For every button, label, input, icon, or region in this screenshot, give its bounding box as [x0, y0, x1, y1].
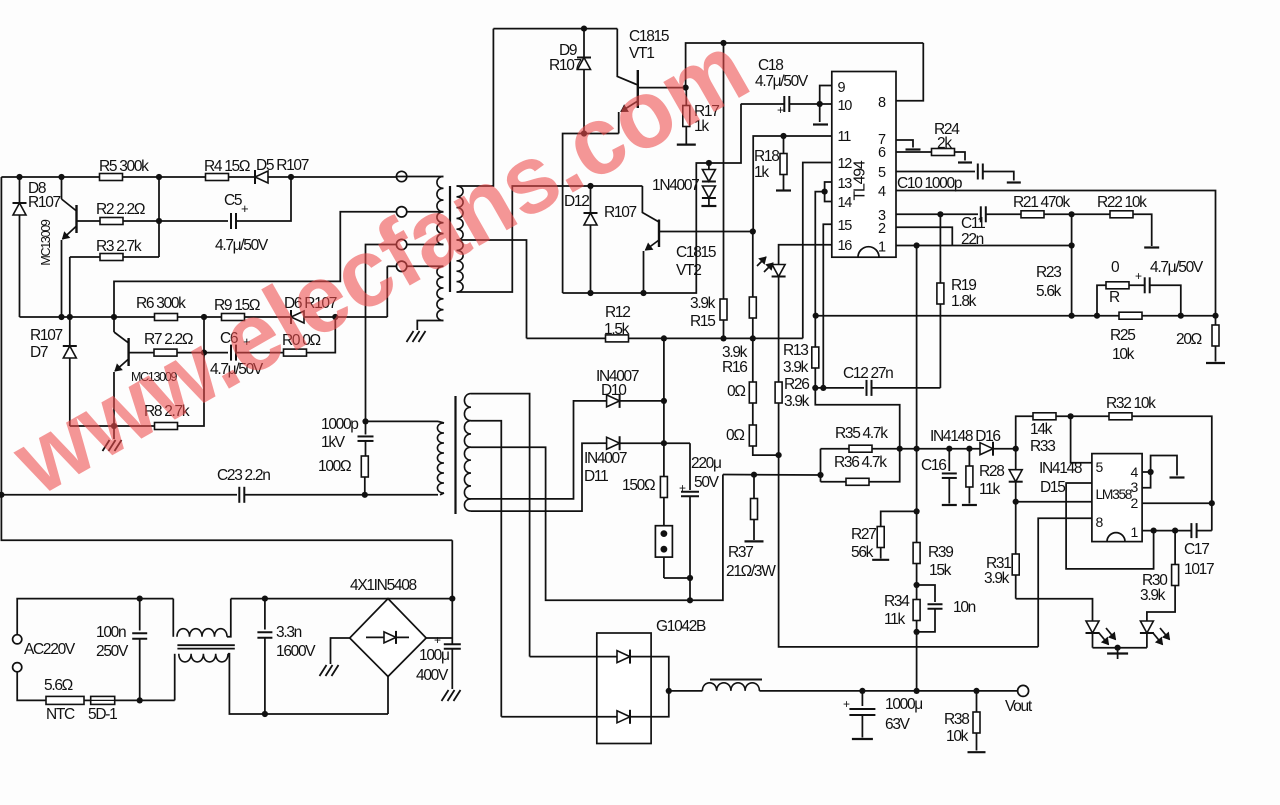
wire base to rail y=43 — [686, 43, 924, 88]
svg-text:R37: R37 — [728, 544, 753, 561]
transistor Q2 MC13009 — [113, 317, 115, 332]
svg-text:50V: 50V — [694, 474, 720, 491]
transformer T1 lower winding — [407, 265, 444, 267]
wire pin2 line — [1016, 501, 1092, 503]
svg-text:R35 4.7k: R35 4.7k — [835, 425, 888, 442]
diode D9 R107 — [583, 29, 585, 58]
node C18 right — [817, 101, 823, 107]
transformer T2 core — [454, 396, 456, 514]
wire LED common — [1093, 647, 1147, 649]
wire R16 lower leg — [752, 318, 754, 382]
svg-text:R: R — [1109, 289, 1120, 306]
svg-text:3.9k: 3.9k — [984, 570, 1010, 587]
svg-text:R107: R107 — [30, 327, 63, 344]
svg-text:TL494: TL494 — [852, 160, 869, 200]
ground Q2 emitter — [113, 426, 115, 439]
wire pin4 long rail — [896, 191, 1216, 316]
svg-text:R22 10k: R22 10k — [1097, 194, 1147, 211]
svg-text:15k: 15k — [929, 562, 952, 579]
svg-text:4.7μ/50V: 4.7μ/50V — [755, 73, 809, 90]
svg-text:R34: R34 — [884, 593, 910, 610]
svg-text:AC220V: AC220V — [24, 641, 76, 658]
svg-text:10k: 10k — [946, 728, 969, 745]
wire pin12 drop — [803, 163, 832, 339]
svg-text:R25: R25 — [1110, 327, 1135, 344]
svg-text:R32 10k: R32 10k — [1106, 395, 1156, 412]
svg-text:11k: 11k — [884, 611, 905, 628]
svg-text:VT2: VT2 — [676, 262, 701, 279]
node feedback divider top — [914, 242, 920, 248]
svg-text:150Ω: 150Ω — [622, 477, 655, 494]
node R5 right — [156, 174, 162, 180]
svg-text:1017: 1017 — [1184, 561, 1214, 578]
wire error amp line y=315.7 — [816, 315, 1216, 317]
svg-text:10n: 10n — [953, 599, 976, 616]
wire VT1 emitter line — [563, 134, 619, 294]
wire feed line y=475 — [723, 474, 821, 477]
svg-text:R28: R28 — [979, 463, 1004, 480]
svg-text:3.9k: 3.9k — [690, 295, 716, 312]
wire AC bottom — [17, 672, 46, 701]
wire opto chain down — [779, 455, 1039, 647]
svg-text:4.7μ/50V: 4.7μ/50V — [215, 237, 269, 254]
svg-text:1600V: 1600V — [276, 643, 316, 660]
svg-text:3.9k: 3.9k — [1140, 587, 1166, 604]
svg-text:R15: R15 — [690, 313, 715, 330]
transformer T2 primary — [438, 421, 444, 423]
svg-text:R21 470k: R21 470k — [1013, 194, 1071, 211]
wire left border — [1, 177, 452, 540]
svg-text:10k: 10k — [1112, 346, 1135, 363]
node D8 top — [16, 174, 22, 180]
node D5 right — [288, 174, 294, 180]
svg-text:10: 10 — [838, 98, 853, 114]
ground T1 lower winding — [417, 321, 443, 331]
svg-text:5.6k: 5.6k — [1036, 283, 1062, 300]
diode G1042B lower — [501, 716, 617, 718]
wire C23 to primary bottom — [365, 494, 438, 496]
node divider bottom — [914, 688, 920, 694]
svg-text:14k: 14k — [1030, 421, 1053, 438]
svg-text:R4 15Ω: R4 15Ω — [204, 158, 250, 175]
ground 100u — [442, 690, 449, 701]
svg-text:MC13009: MC13009 — [39, 219, 53, 265]
transformer T1 core — [449, 186, 451, 292]
svg-text:21Ω/3W: 21Ω/3W — [726, 563, 776, 580]
svg-text:C5: C5 — [224, 192, 242, 209]
ground bar pin7 — [896, 140, 913, 148]
svg-text:LM358: LM358 — [1096, 487, 1133, 502]
diode D8 R107 — [19, 177, 21, 203]
wire sec bottom to D11 — [471, 443, 598, 511]
wire T1 sec tap to R12 — [457, 240, 527, 338]
wire pin2 corner — [896, 227, 952, 245]
svg-text:4X1IN5408: 4X1IN5408 — [350, 577, 417, 594]
inductor CM choke core — [177, 644, 234, 646]
wire to circle4 — [386, 266, 388, 317]
wire sec tap3 to return rail — [471, 447, 723, 600]
wire R31 to LED1 — [1016, 599, 1093, 621]
wire x159 — [158, 177, 160, 257]
svg-text:R3 2.7k: R3 2.7k — [96, 238, 142, 255]
svg-text:400V: 400V — [416, 667, 449, 684]
node VT1 base — [683, 85, 689, 91]
svg-text:G1042B: G1042B — [656, 618, 706, 635]
svg-text:D10: D10 — [601, 382, 627, 399]
terminal Vout — [1018, 685, 1029, 696]
optocoupler photodiode — [772, 265, 785, 277]
node Q1 collector — [58, 174, 64, 180]
svg-text:IN4007: IN4007 — [584, 450, 627, 467]
transformer T1 secondary winding — [457, 186, 464, 240]
svg-text:R39: R39 — [928, 544, 953, 561]
wire pin1 line — [1142, 530, 1191, 532]
svg-text:56k: 56k — [851, 544, 874, 561]
svg-text:250V: 250V — [96, 643, 129, 660]
svg-text:14: 14 — [838, 195, 853, 211]
svg-text:1N4007: 1N4007 — [652, 177, 699, 194]
ground bar R17 — [677, 144, 696, 146]
svg-text:11k: 11k — [979, 481, 1000, 498]
wire T1 sec bottom to VT2 rect — [457, 186, 643, 292]
wire sec tap4 to D10 — [471, 401, 598, 499]
svg-text:IN4148 D16: IN4148 D16 — [930, 428, 1000, 445]
wire 14k rail — [1016, 416, 1033, 448]
node VT2 base / pin11 junction — [750, 228, 756, 234]
svg-text:R33: R33 — [1030, 438, 1055, 455]
wire rail y=28.6 — [493, 28, 617, 30]
wire pin2 stub — [1142, 502, 1212, 504]
svg-text:R19: R19 — [951, 277, 976, 294]
wire y=293 line — [563, 104, 741, 293]
ground bar under pin10 node — [819, 104, 821, 122]
svg-text:R5 300k: R5 300k — [99, 158, 149, 175]
wire bridge plus rail — [388, 598, 452, 600]
wire pin16 drop — [779, 245, 832, 266]
svg-text:3.9k: 3.9k — [784, 393, 810, 410]
svg-text:C17: C17 — [1184, 541, 1209, 558]
svg-text:R26: R26 — [784, 376, 809, 393]
svg-text:R38: R38 — [944, 711, 969, 728]
LED1 — [1086, 621, 1099, 633]
wire aux loop to pin1 — [1066, 483, 1154, 569]
svg-text:0Ω: 0Ω — [727, 383, 745, 400]
wire pin13/14 tie — [825, 182, 832, 202]
svg-text:C10 1000p: C10 1000p — [897, 175, 962, 192]
svg-text:3.9k: 3.9k — [783, 359, 809, 376]
wire R35R36 bracket — [820, 449, 822, 482]
wire pin15 drop — [823, 224, 832, 388]
svg-text:15: 15 — [838, 218, 853, 234]
wire circle2 tap — [407, 211, 444, 213]
wire circle4 left path — [387, 265, 396, 267]
svg-text:12: 12 — [838, 156, 853, 172]
node pin11/R18 — [780, 133, 786, 139]
svg-text:4.7μ/50V: 4.7μ/50V — [1150, 259, 1204, 276]
svg-text:R16: R16 — [722, 359, 747, 376]
wire circle1 to winding — [397, 176, 444, 178]
svg-text:R12: R12 — [605, 304, 630, 321]
wire C12 node to R35/R36 node — [815, 388, 899, 449]
IC U1 TL494 — [832, 72, 896, 258]
svg-text:D7: D7 — [30, 344, 48, 361]
wire aux supply column — [663, 338, 665, 477]
wire circle2 left path — [114, 212, 396, 317]
svg-text:3.3n: 3.3n — [276, 624, 302, 641]
svg-text:16: 16 — [838, 238, 853, 254]
svg-text:1000p: 1000p — [321, 416, 358, 433]
wire y=338.4 drive supply line — [527, 337, 803, 339]
svg-text:0Ω: 0Ω — [726, 427, 744, 444]
svg-text:Vout: Vout — [1005, 698, 1033, 715]
svg-text:R18: R18 — [754, 148, 779, 165]
node D12 top — [587, 183, 593, 189]
inductor output choke — [669, 690, 703, 692]
wire pin3 line — [896, 213, 978, 215]
IC U2 LM358 — [1092, 454, 1142, 542]
svg-text:D5 R107: D5 R107 — [256, 157, 309, 174]
terminal AC N — [13, 663, 22, 672]
LED2 — [1140, 621, 1153, 633]
svg-text:C18: C18 — [758, 57, 783, 74]
transformer T2 secondary — [464, 394, 471, 421]
svg-text:R36 4.7k: R36 4.7k — [834, 454, 887, 471]
wire AC top — [17, 599, 173, 635]
node divider mid — [914, 582, 920, 588]
transformer T1 primary winding upper — [437, 177, 444, 212]
svg-text:R13: R13 — [783, 342, 808, 359]
svg-text:R107: R107 — [604, 204, 637, 221]
svg-text:5D-1: 5D-1 — [88, 706, 117, 723]
wire pin9 tie — [820, 86, 832, 105]
svg-text:20Ω: 20Ω — [1176, 331, 1202, 348]
ground LEDs — [1117, 648, 1119, 654]
wire circle3 tap — [407, 244, 444, 246]
wire C5 to D5 — [236, 177, 291, 221]
wire pins3/4 tie to ground — [1142, 471, 1151, 473]
svg-text:+: + — [241, 201, 248, 216]
wire bridge bottom — [387, 677, 389, 715]
svg-text:11: 11 — [838, 129, 852, 145]
wire sec top to G1042B — [471, 394, 530, 657]
svg-text:C16: C16 — [921, 457, 946, 474]
svg-text:1kV: 1kV — [321, 434, 346, 451]
svg-text:1000μ: 1000μ — [885, 696, 922, 713]
wire circle3 left path — [366, 245, 397, 422]
svg-text:R107: R107 — [28, 194, 61, 211]
svg-text:R6 300k: R6 300k — [136, 295, 186, 312]
svg-text:1.8k: 1.8k — [951, 293, 977, 310]
svg-text:63V: 63V — [885, 716, 911, 733]
inductor CM choke lower — [174, 654, 176, 701]
wire R35R36 to divider — [900, 448, 980, 450]
svg-text:R27: R27 — [851, 526, 876, 543]
svg-text:D15: D15 — [1040, 479, 1065, 496]
node diode stack top — [706, 160, 712, 166]
wire T1 sec top to VT1 rail — [457, 29, 494, 186]
svg-text:R23: R23 — [1036, 264, 1061, 281]
inductor CM choke upper — [172, 599, 174, 637]
wire top rail y=177 — [1, 176, 396, 178]
wire R32 tap to pin5 — [1071, 416, 1092, 463]
svg-text:NTC: NTC — [46, 706, 75, 723]
svg-text:R2 2.2Ω: R2 2.2Ω — [96, 201, 145, 218]
svg-text:D11: D11 — [584, 468, 608, 485]
wire D7 column — [69, 257, 71, 346]
svg-text:220μ: 220μ — [691, 455, 721, 472]
diode G1042B upper — [530, 656, 617, 658]
svg-text:100Ω: 100Ω — [318, 458, 351, 475]
wire 1000p node — [362, 418, 368, 424]
ground bridge left — [331, 638, 350, 664]
wire pin8 loop — [1038, 518, 1092, 647]
transformer T1 terminal circles — [396, 171, 406, 181]
wire sec tap2 to G1042B — [471, 421, 501, 717]
svg-text:1k: 1k — [754, 164, 769, 181]
svg-text:R107: R107 — [549, 57, 582, 74]
terminal AC L — [13, 635, 22, 644]
svg-text:13: 13 — [838, 176, 853, 192]
connector 2pin — [655, 526, 672, 557]
wire rail y=317 — [20, 316, 388, 318]
svg-text:100n: 100n — [96, 624, 126, 641]
transistor Q1 MC13009 — [61, 177, 63, 199]
node D9 top — [581, 26, 587, 32]
svg-text:5.6Ω: 5.6Ω — [44, 677, 73, 694]
svg-text:IN4148: IN4148 — [1039, 460, 1082, 477]
wire rail to TL494 pin8 — [896, 43, 923, 101]
svg-text:C23 2.2n: C23 2.2n — [217, 467, 270, 484]
svg-text:C12 27n: C12 27n — [843, 365, 893, 382]
wire pin1 line — [896, 245, 1072, 247]
wire pin11 to R18/VT2 — [753, 136, 832, 232]
